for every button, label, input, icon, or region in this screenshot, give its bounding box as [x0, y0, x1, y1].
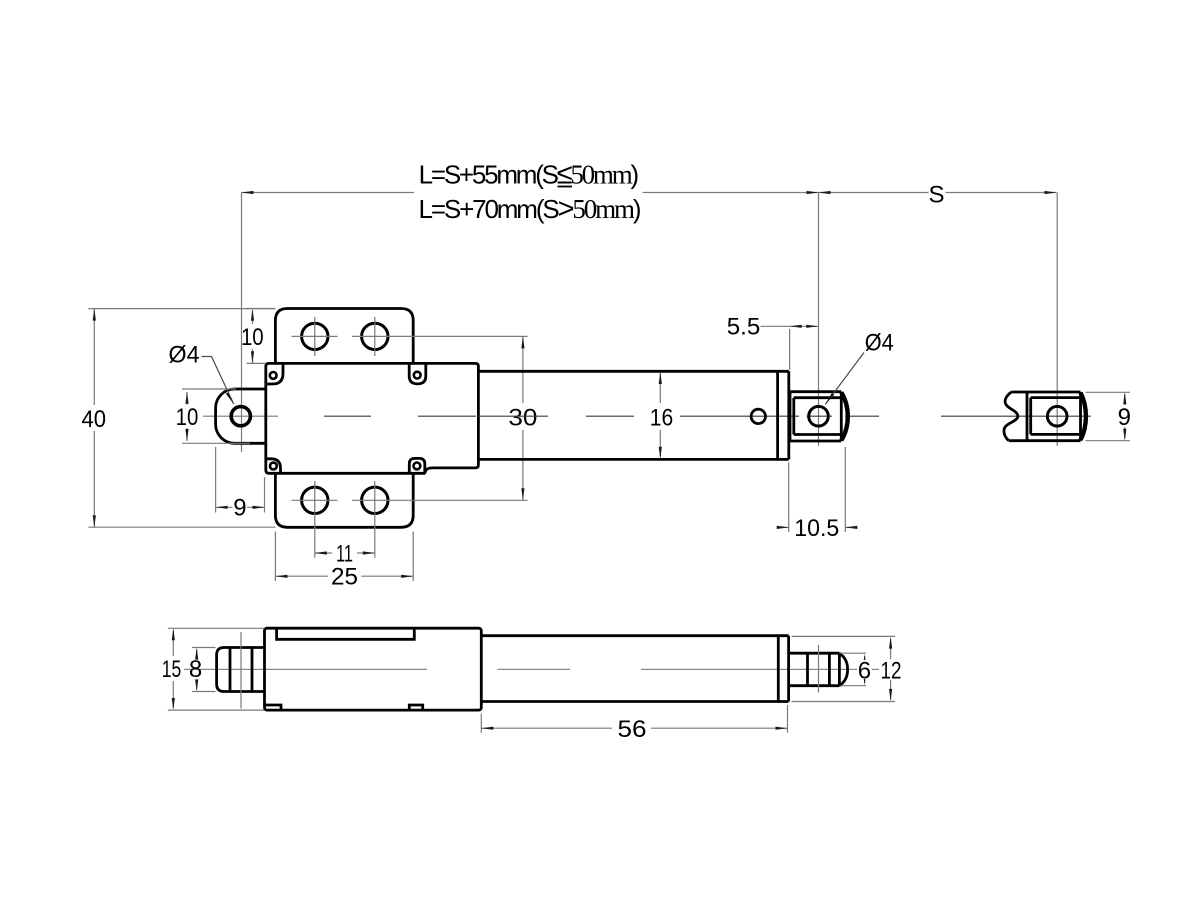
- dimension 15: [168, 628, 264, 710]
- extension line right (extended rod hole center): [1056, 193, 1058, 447]
- dimension 10 eyelet height: [182, 389, 250, 443]
- svg-text:10.5: 10.5: [794, 515, 839, 542]
- extra bar for less-equal glyph: [558, 186, 573, 188]
- extended rod inner profile: [1031, 398, 1080, 435]
- dimension 10.5: [779, 447, 856, 532]
- dimension 16 tube width: [659, 373, 661, 458]
- plate hole top-right: [362, 323, 388, 349]
- side foot left: [266, 705, 282, 710]
- svg-text:30: 30: [508, 404, 537, 431]
- svg-text:8: 8: [189, 656, 202, 683]
- rod end nose arc: [841, 392, 848, 440]
- rear eyelet outline: [216, 389, 266, 443]
- extended rod joint line: [1026, 392, 1029, 441]
- svg-text:Ø4: Ø4: [169, 342, 200, 369]
- dimension 40 overall height: [88, 309, 275, 528]
- side rod dome tip: [839, 653, 847, 685]
- dimension 11 hole spacing: [315, 519, 375, 558]
- screw pad bottom-right arch: [409, 458, 425, 473]
- svg-text:S: S: [928, 182, 944, 209]
- svg-text:L=S+70mm(S>50mm): L=S+70mm(S>50mm): [419, 193, 642, 225]
- dimension 10 plate offset: [247, 309, 276, 364]
- top mounting plate: [275, 309, 413, 364]
- dimension 5.5: [761, 326, 819, 370]
- side eyelet block: [217, 648, 265, 692]
- dimension 6: [841, 653, 867, 686]
- svg-text:9: 9: [1118, 404, 1131, 431]
- dimension L top line: [242, 192, 1057, 194]
- screw pad bottom-left: [266, 459, 281, 474]
- dimension 12: [792, 636, 895, 701]
- svg-text:10: 10: [176, 404, 199, 431]
- screw pad top-right: [409, 364, 426, 384]
- dimension 9 extended rod height: [1086, 392, 1131, 440]
- dimension 25 plate length: [275, 532, 413, 582]
- leader line diameter 4 left: [202, 357, 234, 405]
- extended rod hole: [1047, 406, 1067, 426]
- screw bottom-right: [414, 463, 421, 470]
- svg-text:Ø4: Ø4: [865, 329, 894, 356]
- side centerline: [184, 668, 881, 670]
- svg-text:16: 16: [650, 404, 674, 431]
- screw bottom-left: [270, 463, 277, 470]
- svg-text:L=S+55mm(S≤50mm): L=S+55mm(S≤50mm): [419, 159, 640, 191]
- plate hole top-left: [302, 323, 328, 349]
- dimension 30 hole row spacing: [522, 336, 524, 500]
- svg-text:9: 9: [233, 495, 246, 522]
- plate hole bottom-right: [362, 487, 388, 513]
- screw top-left: [270, 372, 277, 379]
- rear eyelet hole: [231, 407, 250, 426]
- extended rod detail centerline: [941, 415, 1091, 417]
- screw top-right: [414, 372, 421, 379]
- svg-text:40: 40: [82, 406, 107, 433]
- extended rod break squiggle: [1004, 392, 1018, 441]
- svg-text:6: 6: [858, 657, 871, 684]
- svg-text:10: 10: [241, 324, 264, 351]
- side tube: [481, 636, 788, 702]
- dimension 8: [192, 648, 216, 692]
- main centerline: [324, 415, 879, 417]
- svg-text:5.5: 5.5: [727, 314, 761, 341]
- side eyelet hole center: [240, 632, 242, 709]
- rod end inner profile: [794, 398, 842, 435]
- hole center marks: [292, 317, 528, 520]
- svg-text:56: 56: [618, 716, 647, 743]
- side eyelet hole edges: [230, 648, 252, 692]
- extension line left (eyelet hole center): [241, 193, 243, 453]
- side rod hole center: [818, 645, 820, 693]
- plate hole bottom-left: [302, 487, 328, 513]
- dimension 9 eyelet length: [216, 447, 265, 513]
- extension line middle (rod end hole center): [818, 193, 820, 447]
- leader line diameter 4 right: [825, 353, 864, 405]
- svg-text:25: 25: [331, 564, 358, 591]
- dimension 56: [481, 705, 787, 733]
- side foot right: [409, 705, 422, 710]
- rod end block: [790, 392, 841, 441]
- extended rod outline: [1009, 392, 1081, 441]
- side rod: [789, 653, 840, 686]
- eyelet horizontal centerline: [203, 415, 278, 417]
- body outline: [266, 363, 479, 473]
- extended rod nose arc: [1081, 393, 1086, 440]
- rod end hole: [809, 406, 829, 426]
- side top recess: [277, 628, 415, 639]
- bottom mounting plate: [275, 473, 413, 527]
- side rod thread lines: [808, 653, 840, 686]
- screw pad top-left: [266, 363, 283, 384]
- dimension L/S arrowheads: [242, 191, 1057, 194]
- tube hole: [751, 409, 765, 423]
- tube end cap: [778, 371, 789, 459]
- side tube end cap: [778, 636, 788, 702]
- svg-text:15: 15: [162, 656, 182, 683]
- svg-text:12: 12: [881, 657, 902, 684]
- side body: [265, 628, 482, 710]
- outer tube: [478, 371, 788, 459]
